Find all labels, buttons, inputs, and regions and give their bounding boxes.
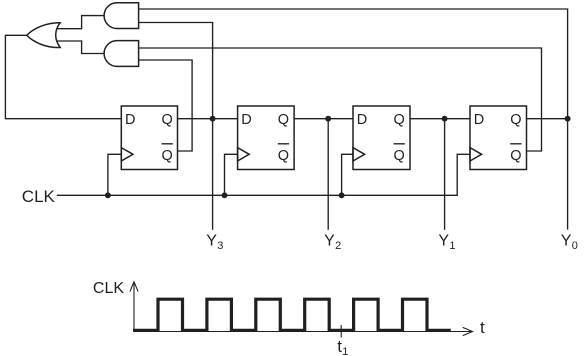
waveform square wave	[133, 299, 451, 330]
clock triangle U5	[238, 148, 250, 161]
svg-text:2: 2	[335, 240, 341, 252]
svg-text:Y: Y	[561, 233, 572, 250]
wire Q U4 to D U5	[178, 118, 238, 120]
junction node Q1/Y3	[210, 116, 216, 122]
svg-text:Q: Q	[394, 148, 405, 164]
svg-text:Q: Q	[510, 112, 521, 128]
wire CLK bus	[57, 154, 470, 195]
svg-text:Q: Q	[394, 112, 405, 128]
D flip-flop U6	[353, 106, 410, 170]
wire AND U3 output to OR U1 input B	[58, 41, 105, 54]
svg-text:Q: Q	[278, 112, 289, 128]
wire CLK tap to U4	[108, 154, 121, 195]
svg-text:0: 0	[572, 240, 578, 252]
svg-text:3: 3	[217, 240, 223, 252]
junction node Q2/Y2	[325, 116, 331, 122]
wire Q U5 to D U6	[294, 118, 353, 120]
svg-text:Q: Q	[278, 148, 289, 164]
body U7	[470, 106, 527, 170]
body U6	[353, 106, 410, 170]
AND gate U2 (top, output left)	[104, 3, 139, 29]
svg-text:CLK: CLK	[22, 187, 56, 206]
svg-text:1: 1	[342, 346, 348, 356]
wire Q U7 to Y0 node	[527, 118, 568, 120]
body U5	[238, 106, 295, 170]
waveform vertical axis arrowhead	[130, 282, 138, 292]
wire Q U6 to D U7	[410, 118, 470, 120]
svg-text:t: t	[480, 318, 485, 337]
label Y2	[324, 233, 341, 252]
wire Q-bar of U4 to AND U3 input B	[139, 60, 193, 151]
svg-text:Y: Y	[324, 233, 335, 250]
svg-text:CLK: CLK	[93, 280, 124, 297]
label Y1	[438, 233, 455, 252]
overbar U6	[394, 143, 405, 145]
junction node CLK tap 3	[339, 192, 345, 198]
wire AND U2 output to OR U1 input A	[58, 16, 105, 29]
svg-text:D: D	[357, 112, 367, 128]
OR gate U1 (mirrored, output left)	[27, 23, 60, 48]
waveform vertical axis	[133, 282, 135, 332]
wire OR U1 output to D input of FF U4	[5, 35, 121, 118]
junction node CLK tap 1	[105, 192, 111, 198]
overbar U5	[278, 143, 289, 145]
svg-text:Y: Y	[206, 233, 217, 250]
AND gate U3 (bottom, output left)	[104, 41, 139, 67]
overbar U4	[162, 143, 173, 145]
svg-text:Q: Q	[162, 112, 173, 128]
svg-text:D: D	[241, 112, 251, 128]
label Y0	[561, 233, 578, 252]
svg-text:Q: Q	[510, 148, 521, 164]
svg-text:D: D	[474, 112, 484, 128]
label t1	[337, 337, 348, 356]
D flip-flop U5	[238, 106, 295, 170]
wire Y2 stub	[327, 119, 329, 230]
label Y3	[206, 233, 223, 252]
tick t1	[340, 325, 342, 338]
svg-text:1: 1	[449, 240, 455, 252]
waveform horizontal axis	[134, 331, 471, 333]
overbar U7	[510, 143, 521, 145]
junction node CLK tap 2	[222, 192, 228, 198]
wire feedback Y0 to AND U2 input A	[139, 9, 568, 119]
D flip-flop U7	[470, 106, 527, 170]
wire CLK tap to U5	[225, 154, 238, 195]
wire feedback Q-bar of U7 to AND U3 input A	[139, 48, 542, 151]
wire CLK tap to U6	[342, 154, 353, 195]
wire Y3 net: AND U2 input B down through Q1 node to Y3	[139, 23, 213, 230]
clock triangle U6	[353, 148, 365, 161]
waveform horizontal axis arrowhead	[463, 327, 473, 335]
svg-text:D: D	[125, 112, 135, 128]
clock triangle U7	[470, 148, 482, 161]
wire Y1 stub	[444, 119, 446, 230]
junction node Q4/Y0	[565, 116, 571, 122]
D flip-flop U4	[121, 106, 177, 170]
junction node Q3/Y1	[442, 116, 448, 122]
wire Y0 stub	[567, 119, 569, 230]
svg-text:Q: Q	[162, 148, 173, 164]
clock triangle U4	[121, 148, 133, 161]
body U4	[121, 106, 177, 170]
svg-text:Y: Y	[438, 233, 449, 250]
